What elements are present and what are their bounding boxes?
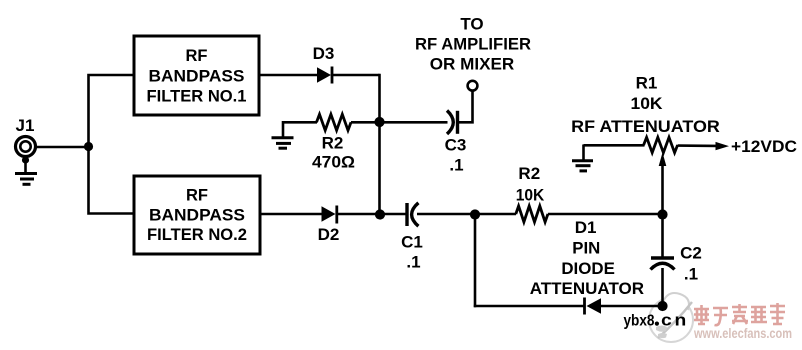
svg-text:FILTER NO.1: FILTER NO.1 — [147, 88, 247, 106]
wire R1 to arrow — [678, 144, 717, 147]
open terminal circle — [468, 81, 478, 91]
wire C1 to node D — [417, 213, 516, 216]
svg-text:RF AMPLIFIER: RF AMPLIFIER — [415, 35, 531, 54]
svg-text:DIODE: DIODE — [561, 259, 615, 278]
node C junction dot — [375, 209, 385, 219]
svg-text:RF: RF — [186, 187, 208, 205]
svg-text:D1: D1 — [575, 218, 597, 237]
wire R2 10K to node E — [548, 213, 663, 216]
wire node D down — [474, 215, 477, 308]
node E junction dot — [657, 209, 667, 219]
capacitor C1 — [407, 203, 418, 226]
wire J1 to node A — [36, 146, 89, 149]
node F corner dot — [657, 301, 667, 311]
wire box1 to D3 — [259, 74, 318, 77]
wiper arrow of R1 — [659, 153, 667, 167]
node B junction dot — [374, 117, 384, 127]
svg-text:BANDPASS: BANDPASS — [149, 207, 245, 225]
svg-text:OR MIXER: OR MIXER — [430, 55, 515, 74]
diode D1 — [585, 298, 602, 315]
svg-text:D2: D2 — [318, 225, 340, 244]
watermark ybx8.cn — [624, 312, 687, 330]
wire vertical node A — [89, 75, 135, 214]
svg-text:.1: .1 — [684, 265, 698, 284]
wire ground to R1 — [584, 144, 645, 147]
svg-text:RF ATTENUATOR: RF ATTENUATOR — [571, 117, 720, 136]
ground at R2 470 — [272, 121, 294, 148]
wire box2 to D2 — [260, 213, 323, 216]
resistor R2 470 — [317, 114, 352, 130]
connector J1 — [16, 137, 36, 173]
wire corner F up to C2 — [661, 268, 664, 306]
wire ground to R2 — [283, 121, 317, 124]
ground at R1 — [572, 145, 593, 171]
svg-text:TO: TO — [460, 15, 483, 34]
wire D2 to C1 — [338, 213, 407, 216]
label filter no.2 — [147, 187, 247, 245]
wire R2 to node B to C3 — [351, 121, 448, 124]
capacitor C2 — [651, 258, 675, 270]
wire D3 to corner — [333, 74, 380, 77]
node A junction dot — [84, 142, 93, 151]
svg-text:+12VDC: +12VDC — [731, 137, 797, 156]
wire C2 up through node E to wiper — [661, 165, 664, 258]
label filter no.1 — [147, 47, 247, 106]
watermark stamp circle (under ink) — [649, 293, 693, 342]
svg-text:R1: R1 — [636, 74, 658, 93]
RF bandpass filter no.2 box — [134, 176, 260, 254]
svg-text:www.elecfans.com: www.elecfans.com — [693, 326, 792, 341]
diode D3 — [317, 67, 332, 84]
resistor R2 10K — [516, 206, 548, 222]
wire C3 to terminal — [459, 91, 473, 122]
wire bottom left to D1 — [474, 305, 584, 308]
arrowhead +12VDC — [716, 142, 730, 150]
svg-text:.1: .1 — [449, 156, 463, 175]
watermark chinese characters elecfans — [694, 303, 785, 325]
svg-text:R2: R2 — [518, 164, 540, 183]
svg-text:C1: C1 — [401, 233, 423, 252]
RF bandpass filter no.1 box — [134, 36, 259, 115]
wire vertical D3 branch — [378, 74, 381, 214]
svg-text:.1: .1 — [406, 253, 420, 272]
svg-text:FILTER NO.2: FILTER NO.2 — [147, 226, 247, 244]
diode D2 — [322, 206, 337, 224]
svg-text:10K: 10K — [516, 185, 545, 204]
svg-text:10K: 10K — [631, 94, 664, 113]
svg-text:C3: C3 — [445, 136, 467, 155]
svg-text:n: n — [675, 312, 687, 330]
svg-text:J1: J1 — [16, 116, 35, 135]
capacitor C3 — [447, 111, 458, 135]
svg-text:C2: C2 — [680, 244, 702, 263]
svg-text:ybx8: ybx8 — [624, 313, 655, 330]
svg-text:RF: RF — [186, 47, 208, 65]
label D1 PIN DIODE ATTENUATOR — [530, 218, 644, 298]
svg-text:BANDPASS: BANDPASS — [149, 68, 245, 86]
svg-text:PIN: PIN — [572, 238, 600, 257]
svg-text:D3: D3 — [313, 44, 335, 63]
ground below J1 — [15, 174, 37, 185]
wire D1 to corner F — [601, 305, 663, 308]
svg-text:ATTENUATOR: ATTENUATOR — [530, 279, 644, 298]
label TO RF AMPLIFIER OR MIXER — [415, 15, 531, 74]
svg-text:c: c — [661, 312, 672, 330]
potentiometer R1 — [644, 137, 678, 152]
svg-text:R2: R2 — [322, 134, 344, 153]
node D junction dot — [470, 209, 480, 219]
svg-text:470Ω: 470Ω — [312, 153, 355, 172]
